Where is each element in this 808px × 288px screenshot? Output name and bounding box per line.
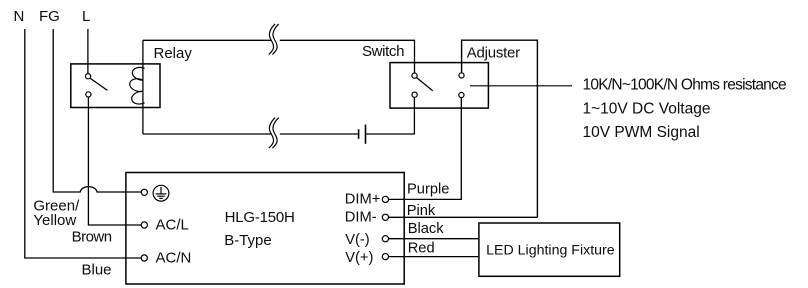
svg-text:Yellow: Yellow xyxy=(33,212,76,229)
svg-text:Brown: Brown xyxy=(72,228,112,245)
adjuster box (open bottom) xyxy=(462,40,538,217)
break symbol top rail xyxy=(269,24,279,55)
switch contact top-left xyxy=(412,73,417,78)
terminal AC/L circle xyxy=(141,222,147,228)
terminal V(+) circle xyxy=(382,254,388,260)
protective earth symbol xyxy=(153,185,169,201)
battery cell long bar xyxy=(365,125,367,144)
svg-text:Adjuster: Adjuster xyxy=(467,44,520,61)
svg-text:Black: Black xyxy=(408,221,445,237)
wire from relay contact to AC/L (brown) xyxy=(88,97,141,225)
svg-text:Switch: Switch xyxy=(362,43,404,60)
wire top rail (coil to switch) xyxy=(143,40,415,73)
wire switch BR contact down to DIM+ (purple) xyxy=(389,98,462,200)
wire DIM- (pink) from adjuster right edge xyxy=(389,216,538,218)
pointer line to adjuster notes xyxy=(470,85,572,87)
PSU box HLG-150H xyxy=(126,173,404,285)
relay contact top xyxy=(86,74,91,79)
terminal V(-) circle xyxy=(382,236,388,242)
svg-text:DIM+: DIM+ xyxy=(345,191,381,207)
svg-text:Red: Red xyxy=(408,240,435,256)
break symbol bottom rail xyxy=(269,118,279,149)
switch arm xyxy=(416,78,432,91)
terminal DIM- circle xyxy=(382,214,388,220)
svg-text:LED Lighting Fixture: LED Lighting Fixture xyxy=(486,242,615,258)
svg-text:Purple: Purple xyxy=(407,182,449,198)
battery cell short bar xyxy=(358,129,360,139)
relay switch arm xyxy=(90,78,107,90)
svg-text:Relay: Relay xyxy=(154,45,193,62)
LED lighting fixture box xyxy=(479,223,620,276)
wire bottom rail (coil to battery to switch) xyxy=(143,97,415,134)
relay contact bottom xyxy=(86,92,91,97)
relay coil K1 xyxy=(130,67,145,104)
svg-text:AC/L: AC/L xyxy=(156,217,189,234)
svg-text:V(+): V(+) xyxy=(345,250,373,266)
svg-text:V(-): V(-) xyxy=(345,232,369,248)
svg-text:10K/N~100K/N Ohms resistance: 10K/N~100K/N Ohms resistance xyxy=(583,77,787,94)
terminal FG circle xyxy=(141,189,147,195)
wire L vertical xyxy=(87,29,89,74)
svg-text:10V PWM Signal: 10V PWM Signal xyxy=(583,124,700,141)
svg-text:DIM-: DIM- xyxy=(345,209,377,225)
wire V(+) red to LED fixture xyxy=(389,256,479,258)
relay box xyxy=(71,64,160,108)
svg-text:N: N xyxy=(14,8,25,25)
svg-text:B-Type: B-Type xyxy=(224,232,272,249)
wire V(-) black to LED fixture xyxy=(389,238,479,240)
wire FG vertical with hop over brown wire xyxy=(53,29,141,192)
terminal DIM+ circle xyxy=(382,196,388,202)
svg-text:HLG-150H: HLG-150H xyxy=(225,209,295,226)
switch box xyxy=(390,63,488,109)
switch contact bottom-right xyxy=(459,92,464,97)
svg-text:1~10V DC Voltage: 1~10V DC Voltage xyxy=(583,100,711,117)
terminal AC/N circle xyxy=(141,255,147,261)
relay coil vertical wire xyxy=(142,40,144,134)
wire N vertical xyxy=(25,29,141,258)
svg-text:FG: FG xyxy=(39,8,60,25)
svg-text:Blue: Blue xyxy=(82,261,112,278)
switch contact bottom-left xyxy=(412,92,417,97)
switch contact top-right xyxy=(459,73,464,78)
svg-text:AC/N: AC/N xyxy=(156,250,192,267)
svg-text:L: L xyxy=(82,8,90,25)
svg-text:Pink: Pink xyxy=(407,203,436,219)
